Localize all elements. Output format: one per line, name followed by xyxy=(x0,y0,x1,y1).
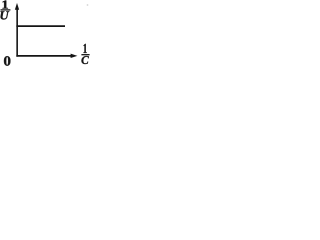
label 1/C numerator 1 xyxy=(84,44,87,53)
label 0 at origin xyxy=(4,56,10,65)
y-axis xyxy=(16,7,18,57)
label 1/U denominator U xyxy=(1,11,10,19)
label 1/U numerator 1 xyxy=(3,1,8,9)
label 1/C denominator C xyxy=(82,56,89,64)
label 1/U fraction bar xyxy=(1,9,11,11)
label 1/C fraction bar xyxy=(81,54,89,56)
background xyxy=(0,0,91,70)
graph line (horizontal) xyxy=(16,25,65,27)
x-axis xyxy=(16,55,73,57)
x-axis arrowhead xyxy=(71,54,78,58)
y-axis arrowhead xyxy=(15,3,19,10)
faint speck top-right xyxy=(87,4,89,6)
